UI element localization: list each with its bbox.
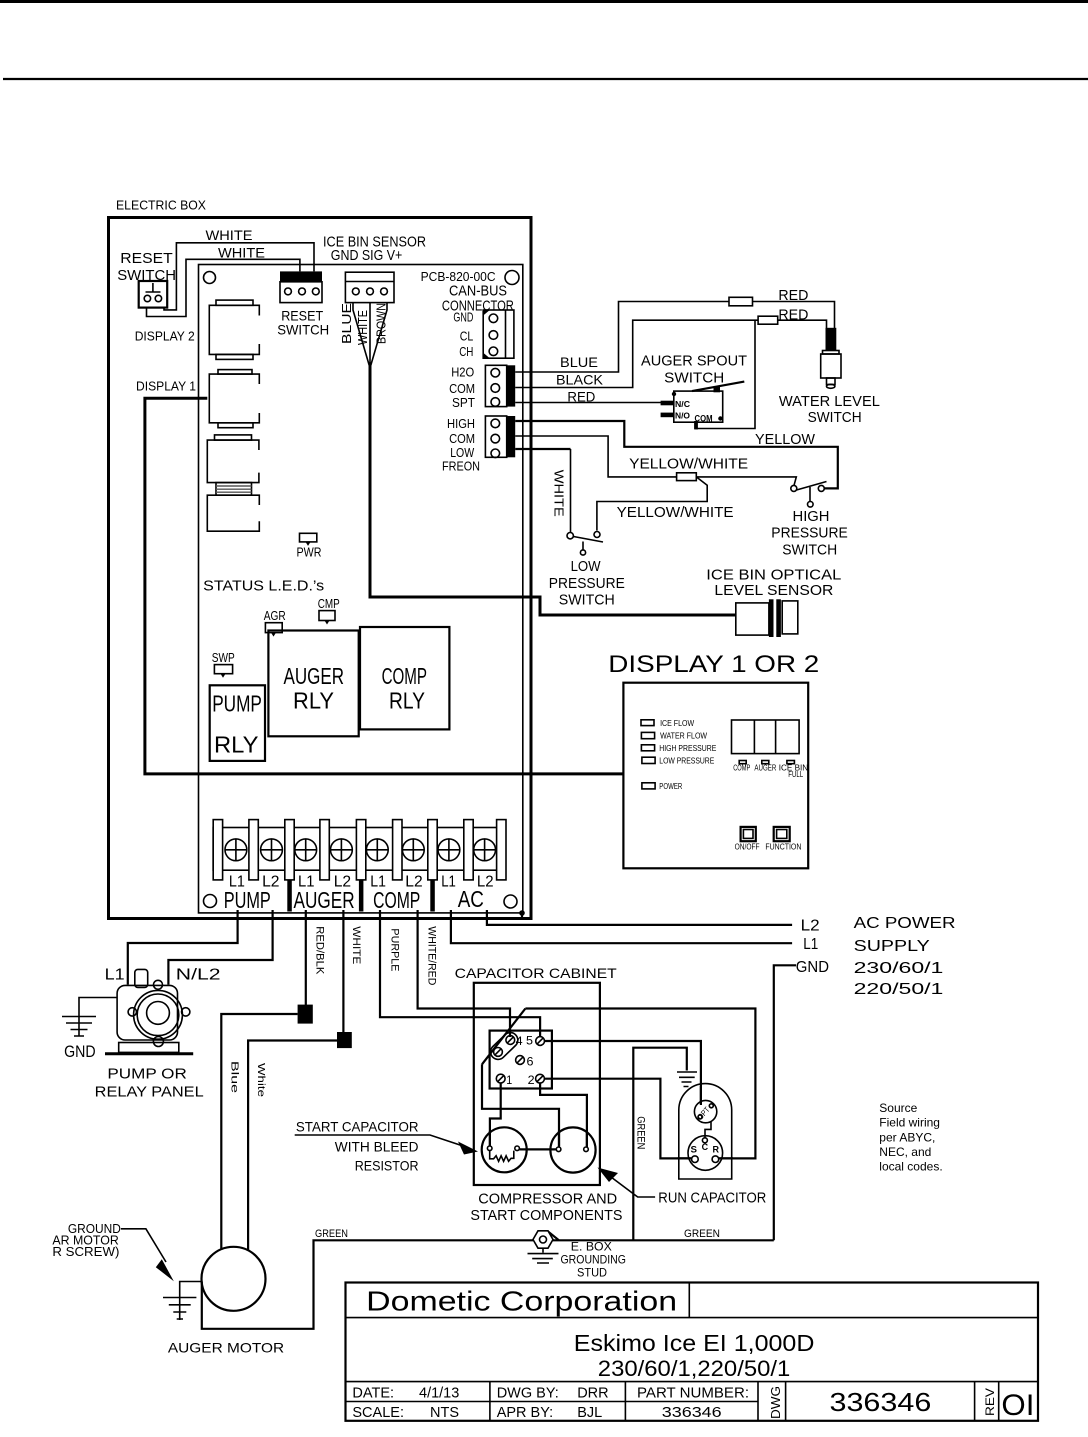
overload terminal circle [494,1048,503,1057]
e-box grounding stud [528,1231,626,1280]
LED COMP [739,761,746,764]
ground symbol auger motor [163,1298,196,1320]
svg-text:RED: RED [778,287,808,304]
svg-text:230/60/1: 230/60/1 [854,960,944,977]
terminal group labels [224,886,484,913]
svg-text:AUGER MOTOR: AUGER MOTOR [168,1340,284,1356]
wire diagonal top to run capacitor R [525,1009,755,1159]
PCB board outline [199,265,523,913]
svg-text:Source: Source [879,1101,917,1115]
svg-text:RED/BLK: RED/BLK [314,926,326,975]
splice junction auger red/blk-blue [298,1005,313,1024]
wire pump case to ground [79,998,117,1017]
svg-text:ICE FLOW: ICE FLOW [660,718,694,728]
ice bin sensor cable to optical sensor [370,366,736,615]
HIGH/COM/LOW connector J5 [485,416,515,458]
svg-text:local codes.: local codes. [879,1160,942,1174]
svg-text:GND: GND [796,959,829,976]
svg-text:GREEN: GREEN [684,1228,720,1240]
svg-text:SWITCH: SWITCH [782,542,837,559]
wire YELLOW HIGH to high pressure switch [515,421,838,488]
junction dot PCB to box bottom [519,910,525,918]
svg-text:White: White [255,1063,266,1098]
svg-text:DATE:: DATE: [352,1386,394,1402]
svg-text:AUGER: AUGER [754,763,776,773]
label START CAPACITOR WITH BLEED RESISTOR [295,1119,478,1174]
wire Blue splice to auger motor [221,1014,297,1250]
svg-text:GREEN: GREEN [315,1228,348,1240]
wire resistor to high pressure switch [696,477,796,486]
wire RED SPT to auger spout switch N/C [515,402,661,404]
svg-text:HIGH PRESSURE: HIGH PRESSURE [659,743,716,753]
svg-text:WHITE: WHITE [218,245,265,261]
svg-text:BLUE: BLUE [560,354,598,370]
overload relay diagonal link [482,1009,525,1065]
capacitor cabinet enclosure [474,983,600,1185]
svg-text:RUN CAPACITOR: RUN CAPACITOR [658,1190,766,1207]
page header rule line [3,78,1088,80]
svg-text:START COMPONENTS: START COMPONENTS [470,1207,622,1224]
svg-text:NTS: NTS [430,1405,459,1421]
LED PWR [297,533,322,559]
LED HIGH PRESSURE [641,743,716,753]
svg-text:COMP: COMP [373,887,420,913]
svg-text:COM: COM [449,381,475,396]
terminal 2 [528,1073,545,1087]
wire L1 PUMP terminal to pump [128,910,238,985]
terminal 4 [506,1034,523,1048]
wire WHITE/RED COMP L2 to compressor T4 [418,910,510,1037]
LED AGR [264,608,286,637]
wire L2 AC supply [487,910,792,925]
svg-text:COM: COM [449,431,475,446]
svg-text:WHITE: WHITE [552,470,567,517]
svg-text:SUPPLY: SUPPLY [854,938,931,955]
svg-text:DISPLAY 2: DISPLAY 2 [135,329,195,344]
wire grounding stud to GND supply [548,1232,774,1241]
svg-text:YELLOW: YELLOW [755,431,816,448]
svg-text:COMP: COMP [733,763,750,773]
wire GREEN cabinet ground to run capacitor ground [633,1048,687,1241]
svg-text:STUD: STUD [577,1266,607,1280]
terminal group divider COMP/AC [430,880,435,912]
svg-text:SPT: SPT [452,395,475,410]
fuse F2 on red wire [758,316,778,324]
PCB mounting hole bottom-right [504,895,517,908]
svg-text:5: 5 [526,1034,533,1048]
svg-text:PUMP: PUMP [212,691,262,717]
svg-text:BJL: BJL [577,1405,602,1421]
wire T2 to start components terminal B [540,1083,587,1146]
wire overlay into run capacitor S terminal [678,1157,692,1159]
ground symbol pump GND [62,1016,96,1061]
svg-text:R SCREW): R SCREW) [52,1244,119,1259]
svg-text:SWITCH: SWITCH [277,322,329,338]
svg-text:WITH BLEED: WITH BLEED [335,1139,419,1155]
svg-text:Field wiring: Field wiring [879,1116,940,1130]
electric box enclosure [109,218,532,919]
svg-text:C: C [702,1142,709,1152]
svg-text:WATER FLOW: WATER FLOW [660,731,707,741]
LED LOW PRESSURE [642,756,715,766]
svg-text:AGR: AGR [264,608,286,623]
svg-text:WHITE: WHITE [206,227,253,243]
wire T1 to start capacitor [490,1083,501,1146]
compressor terminal block [490,1031,552,1089]
svg-text:L2: L2 [801,918,820,935]
svg-text:BLACK: BLACK [556,372,604,388]
relay AUGER RLY K2 [268,631,358,737]
connector stripe block [216,483,252,496]
svg-text:230/60/1,220/50/1: 230/60/1,220/50/1 [598,1356,791,1381]
wire overload to start components terminal A [482,1064,559,1146]
wire WHITE from reset switch pin B to PCB reset connector [164,243,314,310]
svg-text:PUMP OR: PUMP OR [107,1066,187,1083]
svg-text:N/C: N/C [675,399,690,409]
svg-text:DWG: DWG [768,1386,783,1419]
svg-text:per ABYC,: per ABYC, [879,1130,935,1144]
svg-text:PWR: PWR [297,545,322,560]
svg-text:APR BY:: APR BY: [497,1405,553,1421]
svg-text:GND: GND [453,310,473,325]
svg-text:R: R [713,1144,720,1154]
terminal strip TB1 [213,820,506,880]
button FUNCTION [774,827,790,841]
svg-text:E. BOX: E. BOX [571,1240,612,1254]
relay PUMP RLY K1 [210,685,265,761]
terminal 1 [496,1073,512,1087]
display connector J-3 [207,435,259,483]
svg-text:LOW: LOW [571,558,602,575]
reset switch S1 (external) [117,250,176,308]
wire T5 to run capacitor OPT [545,1041,701,1104]
resistor R1 yellow/white [677,473,697,481]
svg-text:L1: L1 [105,967,125,984]
water level switch S3 [779,328,880,426]
run capacitor C3 [679,1084,732,1179]
svg-text:WATER LEVEL: WATER LEVEL [779,393,880,410]
wire GREEN auger motor to grounding stud [202,1240,533,1329]
display connector J-D2 [209,300,259,359]
wire WHITE AUGER L2 to splice [342,910,344,1032]
svg-text:S: S [691,1145,698,1155]
svg-text:336346: 336346 [830,1387,932,1417]
svg-text:FUNCTION: FUNCTION [765,842,801,852]
ground symbol run capacitor [677,1072,697,1087]
svg-text:DRR: DRR [577,1386,608,1402]
svg-text:Dometic Corporation: Dometic Corporation [366,1286,677,1317]
wire YELLOW/WHITE resistor to low pressure switch [597,477,707,531]
svg-text:CMP: CMP [318,596,340,611]
LED CMP [318,596,340,625]
svg-text:GND SIG V+: GND SIG V+ [331,247,403,264]
reset switch connector on PCB [277,271,329,337]
svg-text:CL: CL [460,329,474,344]
LED WATER FLOW [641,731,707,741]
wire PURPLE COMP L1 to compressor T5 [380,910,540,1037]
svg-text:HIGH: HIGH [793,508,830,525]
overload capsule [487,1029,520,1062]
splice junction auger white [337,1032,352,1048]
svg-text:Eskimo Ice EI 1,000D: Eskimo Ice EI 1,000D [574,1330,815,1356]
svg-text:SCALE:: SCALE: [352,1405,404,1421]
leader RUN CAPACITOR [598,1168,767,1207]
svg-text:REV: REV [983,1388,997,1416]
button ON/OFF [741,827,756,841]
wire L1 AC supply [451,910,792,943]
svg-text:N/L2: N/L2 [176,967,221,984]
svg-text:AUGER: AUGER [284,663,345,689]
svg-text:RED: RED [567,389,595,405]
wire N/L2 PUMP terminal to pump [168,910,272,985]
wire DISPLAY 1 to remote display panel [145,398,624,774]
svg-text:RESET: RESET [120,250,172,267]
wire auger motor case to ground [180,1282,202,1321]
LED AUGER [762,761,769,764]
svg-text:CH: CH [459,344,473,359]
svg-text:YELLOW/WHITE: YELLOW/WHITE [617,504,734,521]
wire T2 to run capacitor S [544,1079,691,1159]
svg-text:L1: L1 [803,936,818,953]
svg-text:220/50/1: 220/50/1 [854,981,944,998]
wire YELLOW/WHITE COM to resistor [515,436,676,477]
svg-text:4: 4 [516,1034,523,1048]
wire WHITE LOW to low pressure switch [515,448,570,450]
svg-text:COMP: COMP [382,663,427,689]
start components capacitor C2 [519,1127,595,1172]
pump P1 [105,969,193,1053]
svg-text:L1: L1 [441,874,456,891]
low pressure switch S5 [549,532,625,609]
svg-text:HIGH: HIGH [447,416,475,431]
svg-text:PART NUMBER:: PART NUMBER: [637,1386,749,1402]
display connector J-4 [207,495,259,531]
svg-text:SWP: SWP [212,650,235,665]
svg-text:H2O: H2O [451,365,474,380]
svg-text:DISPLAY 1: DISPLAY 1 [136,379,196,394]
wire overlay into start components terminals [559,1131,587,1148]
svg-text:PUMP: PUMP [224,887,271,913]
svg-text:NEC, and: NEC, and [879,1145,931,1159]
svg-text:START CAPACITOR: START CAPACITOR [296,1119,419,1135]
LED ICE FLOW [641,718,694,728]
svg-text:AC: AC [458,886,484,912]
svg-text:OI: OI [1001,1389,1034,1422]
svg-text:CAPACITOR CABINET: CAPACITOR CABINET [455,965,617,981]
svg-text:AC POWER: AC POWER [854,915,956,932]
wire BLACK COM to water level switch [515,320,826,387]
svg-text:Blue: Blue [229,1061,240,1094]
svg-text:ICE BIN OPTICAL: ICE BIN OPTICAL [706,567,841,584]
7-segment display window [732,720,800,754]
ice bin sensor cable wires converging [353,303,387,368]
wire White splice to auger motor [248,1041,337,1251]
svg-text:SWITCH: SWITCH [808,409,862,426]
relay COMP RLY K3 [360,627,449,729]
LED ICE BIN FULL [787,761,795,764]
display connector J-D1 [209,370,259,428]
svg-text:ELECTRIC BOX: ELECTRIC BOX [116,198,206,213]
svg-text:GROUNDING: GROUNDING [561,1253,626,1267]
svg-text:LOW PRESSURE: LOW PRESSURE [659,756,714,766]
CAN-BUS connector J3 [483,310,514,358]
label GROUND (AUGER MOTOR SCREW) [52,1221,173,1281]
svg-text:N/O: N/O [675,411,690,421]
terminal 6 [516,1055,534,1069]
svg-text:RLY: RLY [293,688,334,714]
svg-text:WHITE/RED: WHITE/RED [426,926,438,985]
PCB mounting hole top-right [505,271,519,285]
high pressure switch S4 [771,482,848,559]
svg-text:FREON: FREON [442,459,480,474]
svg-text:PRESSURE: PRESSURE [771,525,848,542]
svg-text:4/1/13: 4/1/13 [419,1386,459,1402]
auger spout switch S2 [661,382,745,430]
note source field wiring [879,1101,942,1174]
wire overlay into run capacitor R terminal [719,1157,733,1159]
svg-text:RLY: RLY [214,732,259,758]
terminal 5 [526,1034,544,1048]
svg-text:AUGER: AUGER [294,887,355,913]
svg-text:YELLOW/WHITE: YELLOW/WHITE [629,456,748,473]
wire branch to auger spout switch COM [696,320,755,428]
fuse F1 on red wire [729,297,753,306]
svg-text:RED: RED [778,307,808,324]
svg-text:COMPRESSOR AND: COMPRESSOR AND [478,1191,617,1208]
wire overlay into start capacitor terminal [489,1131,491,1147]
svg-text:GND: GND [64,1042,96,1061]
svg-text:POWER: POWER [659,781,682,791]
svg-text:1: 1 [506,1073,512,1087]
svg-text:FULL: FULL [788,769,803,779]
LED SWP [212,650,235,678]
svg-text:LEVEL SENSOR: LEVEL SENSOR [714,582,833,599]
svg-text:AUGER SPOUT: AUGER SPOUT [641,353,747,370]
svg-text:6: 6 [527,1055,534,1069]
ice bin sensor connector J2 [345,272,394,302]
LED POWER [642,781,682,791]
svg-text:336346: 336346 [662,1405,722,1421]
auger motor M1 [202,1247,266,1311]
wire WHITE from reset switch pin A to PCB reset connector [147,259,300,316]
terminal group divider AUGER/COMP [359,880,364,912]
wire GND supply stub [774,965,796,1240]
svg-text:RLY: RLY [389,688,425,714]
ice bin optical level sensor U2 [736,599,798,637]
H2O/COM/SPT connector J4 [485,365,515,406]
wire RED/BLK AUGER L1 to splice [305,910,307,1005]
PCB mounting hole top-left [204,272,216,284]
svg-text:PURPLE: PURPLE [389,928,401,971]
svg-text:2: 2 [528,1073,535,1087]
wire BLUE H2O to water level switch [515,302,834,373]
svg-text:RELAY PANEL: RELAY PANEL [95,1084,204,1101]
svg-text:DISPLAY 1 OR 2: DISPLAY 1 OR 2 [608,651,819,678]
svg-text:ON/OFF: ON/OFF [735,842,760,852]
svg-text:PRESSURE: PRESSURE [549,575,625,592]
svg-text:DWG BY:: DWG BY: [497,1386,559,1402]
svg-text:GREEN: GREEN [635,1116,647,1149]
title block frame [346,1283,1039,1421]
terminal labels L1 L2 row [229,874,494,891]
page top border line [0,0,1088,3]
svg-text:STATUS L.E.D.’s: STATUS L.E.D.’s [203,577,324,594]
wire overlay into run capacitor OPT [700,1086,702,1105]
svg-text:RESISTOR: RESISTOR [355,1158,419,1174]
svg-text:WHITE: WHITE [350,926,362,964]
terminal group divider PUMP/AUGER [287,880,292,912]
svg-text:SWITCH: SWITCH [559,592,615,609]
terminal screws [225,839,496,861]
PCB mounting hole bottom-left [204,895,217,908]
svg-text:SWITCH: SWITCH [664,369,724,386]
svg-text:BLUE: BLUE [339,303,354,344]
start capacitor C1 [482,1127,527,1172]
